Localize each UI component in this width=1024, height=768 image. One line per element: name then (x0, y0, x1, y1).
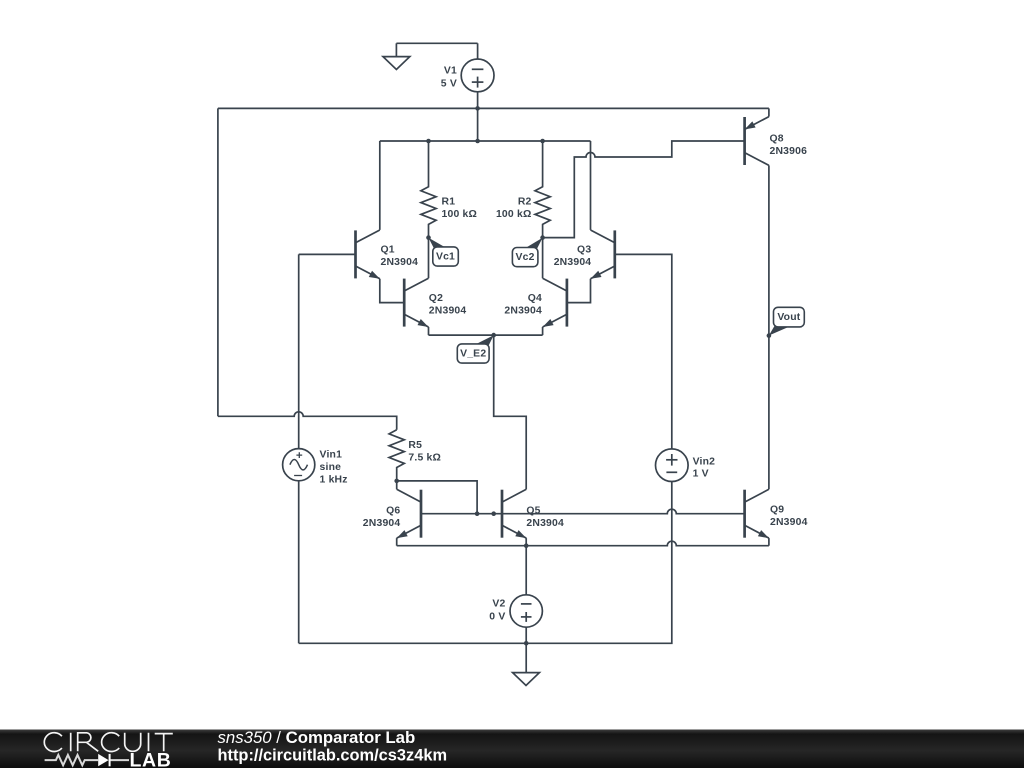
wire Q6 collector riser (396, 481, 398, 489)
node flag V_E2 (457, 335, 493, 363)
wire Vin1 riser (298, 254, 300, 448)
svg-text:2N3904: 2N3904 (429, 306, 467, 317)
svg-text:Q2: Q2 (429, 293, 443, 304)
svg-text:Q3: Q3 (577, 245, 591, 256)
junction mirror tie at base bus (475, 511, 480, 516)
svg-text:sine: sine (320, 462, 342, 473)
wire Q1 emitter to Q2 base (380, 279, 404, 303)
junction V1 plus at top rail (475, 106, 480, 111)
svg-text:Vc2: Vc2 (516, 252, 535, 263)
wire collector rail (380, 140, 591, 142)
transistor Q8 2N3906 (743, 117, 746, 165)
wire top-left ground link (396, 42, 477, 44)
svg-text:LAB: LAB (130, 750, 172, 768)
svg-text:Vc1: Vc1 (436, 252, 455, 263)
wire V1 to top rail (477, 92, 479, 109)
wire emitter rail with hop over Vin2 (397, 541, 769, 546)
svg-text:V_E2: V_E2 (460, 349, 486, 360)
svg-text:R1: R1 (442, 197, 456, 208)
node flag Vc2 (512, 238, 542, 267)
ground GND1 symbol (395, 43, 397, 56)
svg-text:100 kΩ: 100 kΩ (496, 209, 532, 220)
svg-text:1 kHz: 1 kHz (320, 474, 348, 485)
transistor Q5 2N3904 (501, 490, 504, 538)
wire V1 drop to collector rail (477, 108, 479, 141)
ground GND2 symbol (513, 673, 540, 686)
transistor Q9 2N3904 (743, 490, 746, 538)
svg-text:2N3904: 2N3904 (526, 518, 564, 529)
source Vin1 sine 1kHz (283, 449, 315, 481)
svg-text:100 kΩ: 100 kΩ (442, 209, 478, 220)
svg-text:Q1: Q1 (381, 245, 395, 256)
svg-text:0 V: 0 V (489, 611, 505, 622)
wire Q3 base to Vin2 riser (615, 254, 672, 448)
svg-text:2N3904: 2N3904 (504, 306, 542, 317)
transistor Q4 2N3904 (566, 279, 569, 327)
wire V_E2 horizontal (429, 334, 543, 336)
svg-text:Q9: Q9 (770, 505, 784, 516)
svg-text:http://circuitlab.com/cs3z4km: http://circuitlab.com/cs3z4km (218, 747, 448, 765)
wire Q6 collector tie to bases (397, 481, 477, 514)
svg-text:Vout: Vout (777, 312, 800, 323)
wire V_E2 to Q5 collector (494, 335, 527, 489)
svg-text:Vin2: Vin2 (693, 457, 716, 468)
svg-text:2N3906: 2N3906 (770, 146, 808, 157)
svg-text:R5: R5 (408, 440, 422, 451)
wire Vin2 bottom to V2 node (299, 482, 672, 644)
junction node Vc2 (540, 235, 545, 240)
junction R1 top at collector rail (426, 139, 431, 144)
node flag Vout (769, 307, 804, 335)
svg-text:2N3904: 2N3904 (770, 517, 808, 528)
wire Q4 emitter drop (542, 327, 544, 335)
junction node V_E2 (491, 333, 496, 338)
svg-text:Q8: Q8 (770, 134, 784, 145)
svg-text:2N3904: 2N3904 (554, 257, 592, 268)
wire Q8 collector to Q9 collector (Vout net) (768, 165, 770, 489)
junction base bus segment (491, 511, 496, 516)
wire Q2 emitter drop (428, 327, 430, 335)
wire Q2 collector to Vc1 node (428, 238, 430, 279)
voltage source V1 5V (477, 43, 479, 59)
svg-text:1 V: 1 V (693, 468, 709, 479)
junction V1 drop at collector rail (475, 139, 480, 144)
resistor R1 100k (421, 141, 436, 238)
svg-text:Q6: Q6 (386, 506, 400, 517)
source Vin2 1V (656, 449, 689, 482)
footer bar (0, 730, 1024, 768)
wire Q6 emitter drop (396, 538, 398, 546)
svg-text:sns350 / Comparator Lab: sns350 / Comparator Lab (218, 728, 416, 747)
svg-text:V2: V2 (492, 599, 505, 610)
svg-text:5 V: 5 V (441, 78, 457, 89)
junction R5 bottom / Q6 collector (394, 479, 399, 484)
wire left feedback loop (217, 108, 219, 416)
transistor Q6 2N3904 (420, 490, 423, 538)
wire base bus Q6-Q5-Q9 with hop over Vin2 (421, 509, 745, 514)
wire Q3 collector riser (590, 141, 592, 230)
wire Q9 emitter drop (768, 538, 770, 546)
CircuitLab logo resistor-diode glyph (45, 755, 129, 765)
svg-text:R2: R2 (518, 197, 532, 208)
svg-text:Q5: Q5 (526, 506, 540, 517)
junction Q5 emitter at rail (524, 543, 529, 548)
transistor Q2 2N3904 (403, 279, 406, 327)
wire V2 bottom to ground (525, 627, 527, 643)
wire Q3 emitter to Q4 base (567, 279, 591, 303)
resistor R5 7.5k (389, 430, 404, 481)
node flag Vc1 (429, 238, 459, 266)
junction node Vout (767, 333, 772, 338)
svg-text:2N3904: 2N3904 (363, 518, 401, 529)
wire Q4 collector to Vc2 node (542, 238, 544, 279)
svg-text:Vin1: Vin1 (320, 450, 343, 461)
transistor Q1 2N3904 (354, 230, 357, 278)
transistor Q3 2N3904 (613, 230, 616, 278)
wire top +5V rail (218, 107, 769, 109)
source V2 0V (525, 546, 527, 595)
svg-text:Q4: Q4 (528, 293, 542, 304)
junction node Vc1 (426, 235, 431, 240)
resistor R2 100k (535, 141, 550, 238)
svg-text:7.5 kΩ: 7.5 kΩ (408, 453, 441, 464)
svg-text:2N3904: 2N3904 (381, 257, 419, 268)
svg-text:V1: V1 (444, 66, 457, 77)
wire Vc2 node to Q8 base with hop (543, 141, 745, 238)
junction R2 top at collector rail (540, 139, 545, 144)
CircuitLab logo CIRCUIT text (44, 733, 173, 752)
junction V2 at bottom wire (524, 641, 529, 646)
wire loop bottom with hop over Vin1 riser (218, 412, 397, 430)
wire Q1 base from Vin1 (299, 253, 356, 255)
wire Vin1 bottom drop (298, 481, 300, 644)
wire Q1 collector riser (379, 141, 381, 230)
wire Q5 emitter drop (525, 538, 527, 546)
